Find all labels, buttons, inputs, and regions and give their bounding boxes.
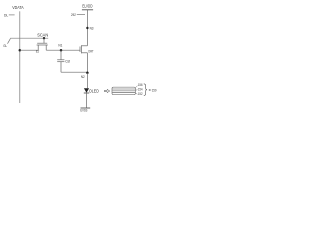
- node N2 dot: [86, 72, 89, 75]
- leader arrow 150: [148, 89, 151, 90]
- label OLED: [89, 88, 99, 93]
- wire DRT source to N2: [86, 53, 88, 73]
- wire data line VDATA: [19, 11, 21, 103]
- net label SCAN: [37, 32, 48, 37]
- svg-text:SCAN: SCAN: [37, 32, 48, 37]
- net label EVSS: [80, 108, 87, 113]
- junction dot scan/gate: [43, 37, 45, 39]
- svg-text:DRT: DRT: [88, 49, 94, 53]
- leader DL: [9, 14, 15, 16]
- svg-text:DL: DL: [4, 12, 9, 17]
- svg-text:EVSS: EVSS: [80, 108, 87, 113]
- net label VDATA: [12, 5, 24, 10]
- label 152: [138, 92, 143, 96]
- wire Cst to node N2: [61, 71, 87, 73]
- wire scan line GL: [10, 37, 48, 39]
- svg-text:150: 150: [152, 87, 157, 92]
- leader 292: [77, 13, 85, 15]
- svg-text:OLED: OLED: [89, 88, 99, 93]
- leader GL: [8, 39, 11, 44]
- brace grouping stack layers: [144, 84, 147, 96]
- ELVDD rail bar: [82, 9, 93, 11]
- label N1: [58, 43, 62, 47]
- transistor DRT (driving TFT): [80, 45, 87, 53]
- wire OLED cathode to EVSS: [86, 93, 88, 108]
- label 292: [71, 12, 76, 17]
- label 150: [152, 87, 157, 92]
- EVSS rail bar: [81, 107, 91, 109]
- svg-text:N1: N1: [58, 43, 62, 47]
- wire N2 to OLED anode: [86, 73, 88, 88]
- junction dot on data line: [19, 49, 22, 52]
- node N1 dot: [60, 49, 63, 52]
- label DRT: [88, 49, 94, 53]
- leader tick layer 156: [136, 86, 138, 88]
- svg-text:ELVDD: ELVDD: [82, 4, 92, 9]
- label 156: [138, 83, 143, 87]
- svg-text:N2: N2: [81, 75, 85, 79]
- wire ST to DRT gate: [46, 49, 80, 51]
- label ST: [36, 50, 40, 54]
- block arrow pointing to OLED stack: [105, 89, 110, 92]
- svg-text:N3: N3: [90, 27, 94, 31]
- leader tick layer 152: [136, 93, 138, 94]
- node N3 dot: [86, 27, 88, 29]
- label N3: [90, 27, 94, 31]
- wire ELVDD to DRT drain: [86, 10, 88, 46]
- transistor ST (switching TFT): [37, 38, 48, 50]
- svg-text:152: 152: [138, 92, 143, 96]
- label Cst: [65, 60, 71, 64]
- wire data line to ST: [20, 49, 38, 51]
- diode OLED: [84, 88, 89, 93]
- svg-text:VDATA: VDATA: [12, 5, 24, 10]
- label GL: [3, 43, 7, 48]
- OLED stack layers: [112, 87, 135, 95]
- svg-text:GL: GL: [3, 43, 7, 48]
- label DL: [4, 12, 9, 17]
- capacitor Cst: [57, 50, 64, 72]
- label 154: [138, 87, 143, 91]
- label N2: [81, 75, 85, 79]
- net label ELVDD: [82, 4, 92, 9]
- leader tick layer 154: [136, 89, 138, 92]
- svg-text:Cst: Cst: [65, 60, 71, 64]
- svg-text:292: 292: [71, 12, 76, 17]
- svg-text:154: 154: [138, 87, 143, 91]
